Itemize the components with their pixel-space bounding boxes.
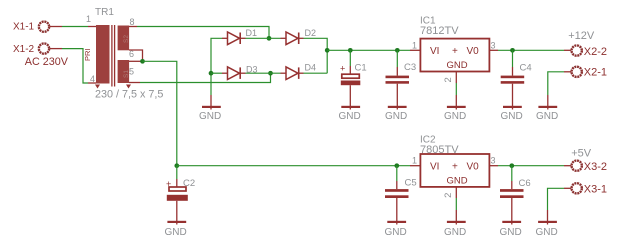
pin 3 bbox=[489, 49, 498, 51]
connector X1-1 bbox=[13, 22, 62, 33]
pin 1 bbox=[88, 26, 96, 28]
node bridge left junction bbox=[209, 71, 214, 76]
svg-text:VI: VI bbox=[430, 46, 439, 57]
secondary winding S2 bbox=[118, 26, 130, 51]
diode D1 bbox=[222, 28, 257, 45]
svg-text:GND: GND bbox=[165, 227, 187, 238]
node center tap junction bbox=[140, 59, 145, 64]
connector X3-2 bbox=[564, 161, 607, 173]
svg-text:C5: C5 bbox=[405, 178, 417, 189]
op-amp / regulator IC1 7812TV bbox=[410, 16, 498, 96]
svg-text:X2-2: X2-2 bbox=[584, 46, 607, 58]
svg-text:1: 1 bbox=[412, 40, 417, 50]
wire center tap to 5V rail bbox=[143, 61, 177, 165]
svg-text:GND: GND bbox=[385, 111, 407, 122]
svg-text:X1-1: X1-1 bbox=[13, 22, 35, 33]
wire +12V rail bbox=[327, 49, 410, 51]
connector X2-2 bbox=[564, 45, 607, 58]
svg-text:V0: V0 bbox=[467, 46, 480, 57]
pin 5 arrow bbox=[126, 85, 131, 89]
wire D2 to right bus bbox=[304, 38, 328, 73]
ground IC2 pin 2 bbox=[444, 210, 466, 238]
svg-text:+5V: +5V bbox=[571, 147, 592, 159]
capacitor C5 bbox=[385, 166, 417, 225]
svg-text:X1-2: X1-2 bbox=[13, 44, 35, 55]
pin 1 bbox=[410, 165, 420, 167]
svg-text:+: + bbox=[340, 64, 345, 74]
wire rail IC2 out to X3-2 bbox=[498, 165, 564, 167]
svg-text:230 / 7,5 x 7,5: 230 / 7,5 x 7,5 bbox=[95, 89, 163, 101]
secondary winding S1 bbox=[118, 60, 130, 83]
wire D3 to D4 bbox=[246, 72, 281, 74]
svg-text:GND: GND bbox=[501, 111, 523, 122]
ground C3 bbox=[385, 106, 407, 122]
svg-text:+: + bbox=[452, 46, 458, 57]
ground C6 bbox=[500, 221, 522, 238]
pin 3 bbox=[489, 165, 498, 167]
ground C5 bbox=[385, 221, 407, 238]
svg-text:7812TV: 7812TV bbox=[420, 25, 459, 37]
svg-text:AC 230V: AC 230V bbox=[25, 56, 69, 68]
svg-text:GND: GND bbox=[339, 111, 361, 122]
pin 7 bbox=[129, 50, 143, 61]
ground bridge bbox=[199, 95, 221, 122]
svg-text:D4: D4 bbox=[305, 63, 317, 73]
transformer TR1 bbox=[83, 7, 163, 101]
svg-text:8: 8 bbox=[130, 17, 135, 27]
pin 8 bbox=[129, 26, 137, 28]
svg-text:S2: S2 bbox=[123, 35, 130, 43]
node bridge AC2 junction bbox=[268, 71, 273, 76]
diode D2 bbox=[281, 28, 317, 44]
svg-text:GND: GND bbox=[500, 227, 522, 238]
svg-text:2: 2 bbox=[443, 77, 454, 82]
connector X3-1 bbox=[564, 183, 607, 195]
svg-text:D2: D2 bbox=[305, 28, 317, 38]
svg-text:1: 1 bbox=[412, 156, 417, 166]
connector X2-1 bbox=[564, 67, 607, 79]
capacitor C4 bbox=[501, 50, 532, 109]
connector X1-2 bbox=[13, 43, 62, 55]
svg-text:C6: C6 bbox=[519, 178, 531, 189]
wire rail IC1 out to X2-2 bbox=[498, 49, 564, 51]
svg-text:GND: GND bbox=[444, 111, 466, 122]
svg-text:VI: VI bbox=[430, 161, 439, 172]
diode D4 bbox=[281, 63, 317, 80]
core line bbox=[114, 25, 116, 87]
capacitor C3 bbox=[386, 50, 417, 109]
svg-text:X3-1: X3-1 bbox=[584, 183, 607, 195]
ground C1 bbox=[339, 106, 361, 122]
svg-text:D3: D3 bbox=[246, 64, 258, 74]
svg-text:5: 5 bbox=[129, 67, 134, 77]
wire X3-1 to ground bbox=[548, 188, 565, 210]
svg-text:D1: D1 bbox=[246, 28, 258, 38]
node bridge output junction bbox=[325, 48, 330, 53]
svg-text:2: 2 bbox=[443, 193, 454, 198]
node C1 junction bbox=[348, 48, 353, 53]
ground X3-1 bbox=[536, 210, 558, 238]
svg-text:X2-1: X2-1 bbox=[584, 67, 607, 79]
primary winding bbox=[96, 25, 110, 84]
regulator IC2 7805TV bbox=[410, 135, 498, 211]
pin 6 bbox=[129, 60, 143, 62]
wire bridge left bus bbox=[211, 38, 222, 95]
capacitor C2 bbox=[166, 166, 195, 225]
node C4 junction bbox=[510, 48, 515, 53]
svg-text:TR1: TR1 bbox=[95, 7, 114, 18]
ground X2-1 bbox=[536, 95, 558, 122]
ground C4 bbox=[501, 106, 523, 122]
svg-text:+: + bbox=[452, 161, 458, 172]
wire X1-1 to TR1 pin 1 bbox=[62, 26, 88, 28]
wire 5V rail bbox=[177, 165, 410, 167]
diode D3 bbox=[222, 64, 258, 79]
pin 4 bbox=[88, 82, 96, 84]
node C6 junction bbox=[509, 163, 514, 168]
ground IC1 pin 2 bbox=[444, 95, 466, 122]
wire TR1 pin 5 to bridge bbox=[140, 73, 271, 82]
node 5V rail C2 junction bbox=[174, 163, 179, 168]
core line bbox=[111, 25, 113, 87]
wire D4 to right bus bbox=[304, 72, 328, 74]
svg-text:6: 6 bbox=[129, 49, 134, 59]
svg-text:1: 1 bbox=[86, 14, 91, 24]
svg-text:PRI: PRI bbox=[83, 48, 92, 61]
pin 1 bbox=[410, 49, 420, 51]
svg-text:X3-2: X3-2 bbox=[584, 161, 607, 173]
node C5 junction bbox=[394, 163, 399, 168]
svg-text:GND: GND bbox=[385, 227, 407, 238]
svg-text:GND: GND bbox=[444, 227, 466, 238]
pin 4 arrow bbox=[95, 85, 100, 89]
svg-text:GND: GND bbox=[536, 111, 558, 122]
pin 2 bbox=[455, 72, 457, 84]
svg-text:C4: C4 bbox=[520, 63, 532, 74]
pin 2 bbox=[455, 187, 457, 198]
svg-text:GND: GND bbox=[447, 175, 468, 186]
node bridge AC1 junction bbox=[267, 36, 272, 41]
svg-text:V0: V0 bbox=[467, 161, 480, 172]
svg-text:C3: C3 bbox=[404, 62, 416, 73]
wire X2-1 to ground bbox=[548, 72, 564, 95]
capacitor C1 bbox=[340, 50, 367, 109]
wire D1 to D2 bbox=[246, 37, 281, 39]
node C3 junction bbox=[395, 48, 400, 53]
wire TR1 pin 8 to bridge bbox=[137, 27, 269, 39]
wire X1-2 to TR1 pin 4 bbox=[62, 49, 88, 83]
svg-text:GND: GND bbox=[447, 60, 468, 71]
pin 5 bbox=[129, 82, 140, 84]
ground C2 bbox=[165, 221, 187, 238]
capacitor C6 bbox=[500, 166, 531, 225]
svg-text:3: 3 bbox=[491, 156, 496, 166]
svg-text:GND: GND bbox=[536, 227, 558, 238]
svg-text:GND: GND bbox=[199, 111, 221, 122]
wire left bus to D3 bbox=[211, 72, 222, 74]
svg-text:4: 4 bbox=[90, 74, 95, 84]
svg-text:C1: C1 bbox=[355, 63, 367, 74]
svg-text:+12V: +12V bbox=[568, 30, 595, 42]
svg-text:3: 3 bbox=[491, 40, 496, 50]
